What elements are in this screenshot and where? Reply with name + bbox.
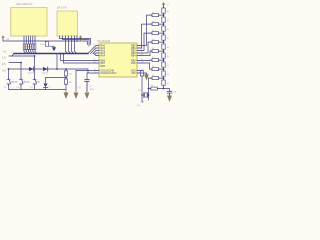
wire RB3 riser bbox=[140, 42, 152, 53]
ground GND6 bbox=[144, 74, 149, 80]
wire RB1 riser bbox=[140, 24, 152, 48]
wire R18 drop bbox=[149, 77, 153, 79]
svg-text:2k: 2k bbox=[152, 21, 154, 23]
net label row3 bbox=[2, 68, 6, 72]
supply flag P0 bbox=[1, 35, 4, 38]
resistor R14 bbox=[150, 41, 164, 44]
diode D1 bbox=[29, 67, 34, 71]
wire VSS bbox=[87, 73, 96, 80]
resistor R16 label bbox=[152, 57, 154, 59]
label C2 bbox=[90, 86, 94, 91]
wire row3 right bbox=[57, 69, 88, 73]
crystal X1 bbox=[142, 93, 149, 98]
svg-text:2k: 2k bbox=[152, 39, 154, 41]
wire cap feed bbox=[164, 89, 170, 92]
wire xtal right leg bbox=[148, 78, 150, 100]
svg-text:VSS: VSS bbox=[131, 73, 136, 75]
supply flag P1 bbox=[79, 35, 82, 41]
resistor R16 bbox=[150, 59, 164, 62]
resistor R3 bbox=[162, 26, 165, 31]
svg-text:RB4: RB4 bbox=[131, 55, 136, 57]
wire bus tap S bbox=[56, 54, 58, 69]
display U2 bbox=[57, 11, 78, 36]
net label row2 bbox=[2, 62, 6, 66]
display U1 segment wires bbox=[24, 36, 35, 50]
resistor R20 label bbox=[145, 74, 148, 76]
svg-text:RA4: RA4 bbox=[101, 54, 106, 57]
resistor R10 bbox=[64, 69, 67, 79]
ladder rail bbox=[163, 5, 165, 89]
resistor R21 bbox=[64, 79, 67, 90]
label +5 left bbox=[6, 37, 10, 41]
wire RB4 riser bbox=[140, 51, 152, 55]
svg-text:100n: 100n bbox=[90, 89, 94, 91]
bus B1 bbox=[14, 53, 88, 55]
resistor R2 label bbox=[167, 20, 170, 22]
svg-text:2k: 2k bbox=[152, 12, 154, 14]
resistor R6 bbox=[162, 53, 165, 58]
diode D1 label bbox=[28, 73, 34, 75]
svg-text:Set: Set bbox=[37, 81, 41, 84]
svg-text:RB7: RB7 bbox=[101, 63, 106, 65]
MCU U3 left pin stubs bbox=[96, 46, 99, 74]
svg-text:2k: 2k bbox=[152, 57, 154, 59]
display U1 label bbox=[16, 2, 33, 6]
resistor R3 label bbox=[167, 29, 170, 31]
power flag VCC bbox=[162, 2, 166, 8]
crystal X1 label bbox=[138, 90, 141, 92]
button S3 bbox=[33, 79, 37, 86]
svg-text:PIC16F628: PIC16F628 bbox=[97, 39, 111, 43]
resistor R1 bbox=[162, 8, 165, 13]
ground GND4 bbox=[85, 93, 90, 100]
junction R10 mid bbox=[65, 77, 67, 79]
resistor R10 label bbox=[69, 74, 72, 76]
ground GND5 bbox=[167, 96, 172, 103]
capacitor C2 bbox=[85, 80, 89, 92]
svg-text:OSC2/CLKOUT: OSC2/CLKOUT bbox=[101, 73, 118, 75]
resistor R5 bbox=[162, 44, 165, 49]
wire RB6 bbox=[61, 54, 97, 61]
svg-text:Stunde: Stunde bbox=[11, 81, 18, 84]
resistor R8 label bbox=[167, 74, 170, 76]
wire +5 rail bbox=[3, 38, 88, 45]
svg-text:330 330 33: 330 330 33 bbox=[23, 47, 32, 49]
display U2 segment wires bbox=[60, 36, 91, 54]
ground GND2 bbox=[64, 90, 69, 100]
resistor R8 bbox=[162, 71, 165, 76]
resistor R19 label bbox=[151, 85, 153, 87]
junction R10 bbox=[65, 68, 67, 70]
resistor R7 label bbox=[167, 65, 170, 67]
resistor R17 label bbox=[152, 66, 154, 68]
bus entries from RN1 bbox=[24, 50, 37, 54]
button refs bbox=[4, 87, 33, 89]
svg-text:1.5: 1.5 bbox=[2, 55, 6, 59]
svg-text:Minute: Minute bbox=[24, 81, 31, 84]
resistor R11 label bbox=[152, 12, 154, 14]
resistor R2 bbox=[162, 17, 165, 22]
MCU U3 left pin numbers bbox=[93, 44, 96, 73]
button S3 label bbox=[37, 81, 41, 84]
capacitor C1 bbox=[45, 41, 48, 46]
ground GND3 bbox=[74, 93, 79, 100]
resistor R6 label bbox=[167, 56, 170, 58]
resistor R9 label bbox=[167, 83, 170, 85]
label +5 mid bbox=[78, 87, 81, 90]
resistor R4 label bbox=[167, 38, 170, 40]
power flag label bbox=[167, 4, 170, 6]
resistor R9 bbox=[162, 80, 165, 85]
resistor R13 label bbox=[152, 30, 154, 32]
resistor R21 label bbox=[69, 82, 72, 84]
display U1 bbox=[11, 8, 47, 36]
svg-text:RB0: RB0 bbox=[101, 66, 106, 68]
wire row2 bbox=[9, 63, 21, 79]
wire OSC1 leg bbox=[140, 71, 143, 103]
wire RB0 riser bbox=[140, 15, 152, 45]
svg-text:100n: 100n bbox=[40, 44, 44, 46]
pin cluster wires U3 left bbox=[88, 46, 96, 56]
display U2 label bbox=[57, 5, 67, 9]
resistor R19 bbox=[149, 87, 164, 90]
svg-text:2k: 2k bbox=[152, 30, 154, 32]
resistor network RN1 values bbox=[23, 47, 32, 49]
resistor R7 bbox=[162, 62, 165, 67]
ground GND1 bbox=[47, 46, 56, 51]
resistor R17 bbox=[150, 68, 164, 71]
MCU U3 bbox=[99, 43, 137, 77]
resistor R20 bbox=[140, 71, 143, 76]
resistor R14 label bbox=[152, 39, 154, 41]
wire row1 bbox=[9, 54, 35, 79]
resistor R11 bbox=[150, 14, 164, 17]
svg-text:10k: 10k bbox=[69, 74, 72, 76]
diode D2 label bbox=[42, 73, 48, 75]
svg-text:2k: 2k bbox=[152, 75, 154, 77]
resistor R1 label bbox=[167, 11, 170, 13]
wire row3 bbox=[9, 69, 58, 79]
button S1 label bbox=[11, 81, 18, 84]
wire RB5 riser bbox=[140, 59, 150, 61]
wire RB7 bbox=[64, 54, 97, 63]
button S2 bbox=[20, 79, 24, 86]
diode D3 bbox=[43, 78, 66, 90]
crystal X1 junctions bbox=[141, 94, 149, 96]
wire VSS stub bbox=[140, 73, 147, 74]
MCU U3 right pin stubs bbox=[137, 46, 140, 74]
wire VDD riser bbox=[140, 63, 150, 69]
resistor R12 label bbox=[152, 21, 154, 23]
junction ladder J1 bbox=[163, 14, 165, 79]
resistor R5 label bbox=[167, 47, 170, 49]
bus entries from U2 bbox=[59, 53, 64, 55]
junction R9 bbox=[148, 88, 165, 90]
MCU U3 label bbox=[97, 39, 111, 43]
svg-text:EF-DUN: EF-DUN bbox=[57, 5, 67, 9]
wire MCLR bbox=[76, 71, 96, 92]
resistor R12 bbox=[150, 23, 164, 26]
MCU U3 right pin numbers bbox=[141, 44, 144, 73]
svg-text:VDD: VDD bbox=[131, 63, 136, 65]
svg-text:4M: 4M bbox=[138, 90, 141, 92]
capacitor C3 label bbox=[173, 92, 177, 94]
svg-text:1N4148: 1N4148 bbox=[28, 73, 34, 75]
resistor R4 bbox=[162, 35, 165, 40]
net label row1 bbox=[2, 55, 6, 59]
label +5 bus bbox=[3, 50, 7, 54]
resistor R18 label bbox=[152, 75, 154, 77]
svg-text:C2: C2 bbox=[90, 86, 92, 88]
svg-text:2k: 2k bbox=[151, 85, 153, 87]
svg-text:2k: 2k bbox=[152, 48, 154, 50]
MCU U3 right pin names bbox=[131, 45, 137, 75]
svg-text:LED-DISPLAY: LED-DISPLAY bbox=[16, 2, 33, 6]
resistor network RN1 bbox=[23, 44, 36, 50]
svg-text:2k: 2k bbox=[152, 66, 154, 68]
resistor R15 label bbox=[152, 48, 154, 50]
label OSC bottom bbox=[137, 105, 141, 107]
capacitor C3 bbox=[167, 91, 171, 95]
svg-text:10k: 10k bbox=[69, 82, 72, 84]
resistor R13 bbox=[150, 32, 164, 35]
wire RB2 riser bbox=[140, 33, 152, 50]
diode D2 bbox=[43, 67, 48, 71]
junction row3 bbox=[8, 55, 58, 70]
button S1 bbox=[7, 79, 11, 86]
svg-text:1N4148: 1N4148 bbox=[42, 73, 48, 75]
button S2 label bbox=[24, 81, 31, 84]
capacitor C1 label bbox=[40, 44, 44, 46]
svg-text:2.5: 2.5 bbox=[2, 62, 6, 66]
diode D3 label bbox=[49, 87, 52, 89]
MCU U3 left pin names bbox=[101, 44, 118, 75]
svg-text:3.5: 3.5 bbox=[2, 68, 6, 72]
wire button rail bbox=[9, 86, 67, 90]
resistor R15 bbox=[150, 50, 164, 53]
resistor R18 bbox=[150, 77, 164, 80]
